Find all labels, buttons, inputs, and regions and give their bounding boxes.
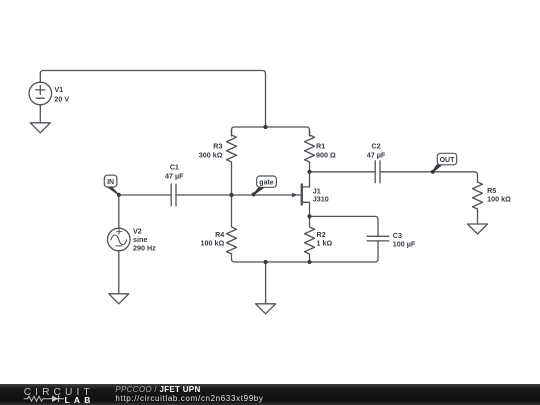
CircuitLab logo text: [24, 387, 95, 405]
svg-text:gate: gate: [259, 179, 274, 186]
ground below R5: [468, 224, 488, 234]
resistor R3: [227, 130, 237, 195]
capacitor C2: [375, 161, 380, 183]
node drain: [307, 170, 311, 174]
svg-text:LAB: LAB: [65, 395, 95, 405]
svg-text:300 kΩ: 300 kΩ: [199, 150, 223, 159]
resistor R4: [227, 195, 237, 254]
wire split bar to R3 and R1: [232, 127, 310, 136]
svg-text:900 Ω: 900 Ω: [316, 150, 336, 159]
svg-text:IN: IN: [107, 179, 114, 186]
ground below V2: [109, 294, 129, 304]
node OUT attach: [431, 170, 435, 174]
wire C3 to bottom rail: [375, 241, 378, 262]
flag IN: [104, 175, 119, 195]
wire C2 to R5: [380, 172, 478, 182]
svg-text:20 V: 20 V: [54, 94, 69, 103]
junction dots: [117, 125, 435, 264]
wire V2 to ground: [118, 251, 120, 294]
voltage source V2: [108, 228, 131, 251]
J1 source lead: [303, 202, 310, 227]
wire IN node to V2: [118, 195, 120, 228]
V2 sine wave: [111, 235, 127, 245]
node R2 bottom: [307, 260, 311, 264]
capacitor C3: [367, 236, 389, 241]
flag gate: [254, 176, 277, 194]
logo diode triangle: [52, 396, 59, 403]
footer title text: [115, 385, 263, 403]
svg-text:47 µF: 47 µF: [165, 171, 184, 180]
wire V1 to ground: [39, 105, 41, 123]
wire center ground stem: [265, 262, 267, 304]
svg-text:100 µF: 100 µF: [393, 239, 416, 248]
node gate flag attach: [252, 192, 256, 196]
svg-text:J310: J310: [313, 195, 329, 204]
svg-text:100 kΩ: 100 kΩ: [487, 195, 511, 204]
svg-text:47 µF: 47 µF: [367, 150, 386, 159]
J1 drain lead: [303, 186, 310, 188]
wire bottom rail: [232, 254, 376, 262]
svg-text:100 kΩ: 100 kΩ: [201, 239, 225, 248]
capacitor C1: [171, 184, 176, 206]
flag OUT: [433, 153, 457, 172]
svg-text:1 kΩ: 1 kΩ: [317, 239, 333, 248]
node IN attach: [117, 193, 121, 197]
svg-text:PPCCOO / JFET UPN: PPCCOO / JFET UPN: [115, 385, 200, 394]
resistor R1: [305, 130, 315, 187]
node bottom ground: [264, 260, 268, 264]
transistor J1 JFET channel bar: [301, 185, 303, 205]
wire top rail from V1 to center drop: [40, 71, 265, 128]
svg-text:V1: V1: [54, 85, 63, 94]
J1 gate arrow: [292, 193, 297, 198]
node top split: [263, 125, 267, 129]
wire drain node to C2: [310, 171, 376, 173]
svg-text:290 Hz: 290 Hz: [133, 244, 156, 253]
resistor R5: [473, 182, 483, 224]
svg-text:http://circuitlab.com/cn2n633x: http://circuitlab.com/cn2n633xt99by: [115, 394, 263, 403]
node source: [307, 214, 311, 218]
voltage source V1: [29, 82, 52, 105]
svg-text:OUT: OUT: [440, 157, 456, 164]
logo resistor-diode squiggle: [24, 396, 64, 403]
node gate/R3/R4: [229, 193, 233, 197]
wire gate line from IN to JFET: [119, 194, 301, 196]
ground below V1: [30, 123, 50, 133]
ground center bottom: [256, 304, 276, 314]
wire source node to C3: [310, 216, 379, 236]
resistor R2: [305, 227, 315, 262]
